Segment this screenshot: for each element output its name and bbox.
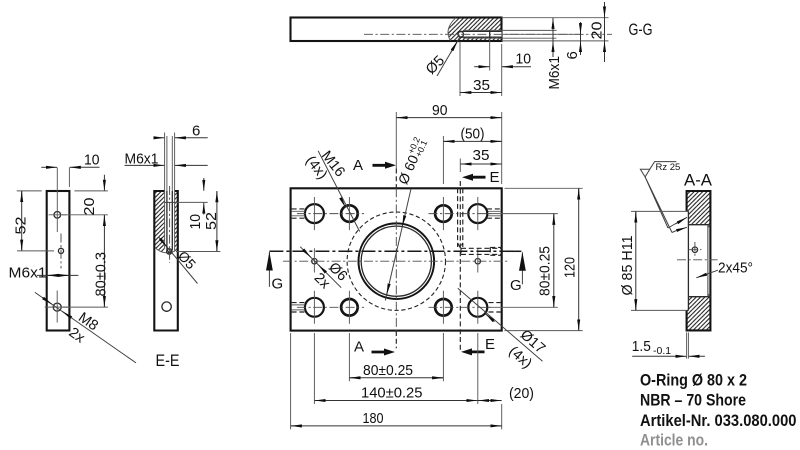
section line G-G	[269, 250, 521, 252]
svg-text:A: A	[354, 339, 364, 356]
vertical ticks Ø6 holes	[314, 248, 477, 272]
section line E-E	[459, 181, 461, 352]
svg-text:E: E	[485, 336, 495, 353]
extension line top face	[502, 17, 609, 19]
hidden drill tip V	[458, 243, 463, 248]
section A-A hatch bottom	[687, 297, 711, 331]
cross hole circle	[692, 247, 697, 252]
center tick hole3	[45, 291, 70, 323]
bore Ø60 outer chamfer circle	[359, 223, 435, 299]
svg-text:35: 35	[473, 147, 490, 164]
svg-text:35: 35	[473, 77, 490, 94]
left side view outline	[47, 191, 70, 331]
svg-text:10: 10	[84, 152, 100, 169]
leader Ø60	[385, 189, 411, 301]
center line hole1 vertical	[56, 168, 58, 233]
hidden recess circle Ø85	[347, 212, 445, 310]
svg-text:1.5: 1.5	[632, 338, 651, 355]
hatch boundary spline	[448, 18, 456, 41]
section G-G bar outline	[291, 18, 502, 42]
leader M8 2x	[35, 292, 136, 363]
svg-text:20: 20	[589, 22, 606, 40]
dimension 120 right	[505, 188, 583, 330]
surface leader lines	[645, 177, 672, 233]
svg-text:52: 52	[13, 217, 30, 235]
tapped hole M16 top-left	[341, 205, 358, 222]
center tick hole1 horizontal	[49, 214, 67, 216]
section A-A hatch top	[687, 191, 711, 225]
svg-text:G-G: G-G	[629, 20, 653, 39]
chamfer lines	[707, 225, 709, 297]
svg-text:Artikel-Nr. 033.080.000: Artikel-Nr. 033.080.000	[640, 411, 797, 430]
extension Ø85	[631, 211, 688, 310]
extension lines thread	[502, 30, 557, 38]
section E-E hatch left block	[154, 191, 164, 252]
hole Ø6 right	[475, 259, 480, 264]
svg-text:A-A: A-A	[684, 171, 713, 190]
tapped hole M16 top-right	[435, 205, 452, 222]
bar outline open at top channel	[154, 191, 178, 331]
section E-E hatch right block	[175, 191, 178, 251]
drill hole outline	[460, 31, 502, 37]
thread crest lines	[165, 191, 175, 251]
hole bottom	[162, 302, 171, 311]
svg-text:20: 20	[81, 198, 98, 216]
thread depth line	[165, 201, 175, 203]
svg-text:120: 120	[562, 257, 579, 278]
label 2x45°	[700, 270, 718, 276]
cross hole center ticks	[694, 242, 696, 258]
hatch broken-out region	[448, 19, 501, 41]
svg-text:90: 90	[432, 102, 448, 119]
center line hole2 vertical	[60, 234, 62, 269]
tapped hole M16 bottom-left	[341, 299, 358, 316]
svg-text:G: G	[510, 277, 522, 294]
extension bar top	[17, 190, 108, 192]
dimension 80±0.25 right	[488, 214, 558, 308]
svg-text:G: G	[272, 276, 284, 293]
dimension 20	[604, 2, 606, 62]
dimension Ø85 H11	[635, 211, 637, 310]
vertical ticks holes	[314, 197, 477, 230]
svg-text:80±0.25: 80±0.25	[536, 246, 553, 296]
corner hole Ø17 top-right	[468, 204, 487, 223]
dimension 52	[216, 191, 218, 252]
svg-text:Rz 25: Rz 25	[656, 162, 681, 173]
surface symbol Rz 25	[640, 162, 676, 177]
hidden side holes row1	[292, 209, 306, 218]
leader Ø5	[437, 37, 460, 76]
hidden side hole row1 right core lines	[488, 211, 501, 216]
extension line hole center	[502, 33, 582, 35]
svg-text:2x45°: 2x45°	[718, 260, 753, 277]
leader Ø17 (4x)	[458, 288, 543, 361]
svg-text:E-E: E-E	[156, 351, 180, 370]
extension line bottom face	[502, 40, 609, 42]
section A-A outline	[687, 191, 711, 330]
corner hole Ø17 bottom-left	[305, 298, 324, 317]
row1 center line	[297, 213, 493, 215]
svg-text:M6x1: M6x1	[546, 56, 563, 90]
front view plate outline	[291, 188, 502, 330]
section arrow G right	[521, 252, 523, 284]
bore edges	[688, 225, 710, 297]
tapped hole M16 bottom-right	[435, 299, 452, 316]
hole bottom M8	[53, 303, 61, 311]
svg-text:M6x1: M6x1	[9, 265, 47, 282]
hidden side hole thread zone	[490, 247, 501, 255]
dimension 10 thread depth	[489, 39, 491, 71]
row2 center line	[297, 306, 493, 308]
svg-text:-0.1: -0.1	[653, 345, 671, 357]
leader Ø5	[159, 237, 198, 284]
svg-text:140±0.25: 140±0.25	[361, 385, 423, 402]
hole middle M6x1	[58, 248, 63, 253]
section line G-G end dash	[506, 250, 521, 252]
hatch boundary arc	[154, 247, 178, 253]
svg-text:80±0.3: 80±0.3	[92, 252, 109, 297]
corner hole Ø17 top-left	[305, 204, 324, 223]
hidden side hole row1 left core lines	[292, 211, 305, 216]
cross hole end circle	[167, 249, 172, 254]
extension 1.5	[687, 333, 689, 359]
svg-text:E: E	[490, 169, 500, 186]
bore Ø60 inner circle	[361, 226, 431, 296]
svg-text:O-Ring Ø 80 x 2: O-Ring Ø 80 x 2	[640, 371, 747, 390]
svg-text:(50): (50)	[461, 126, 485, 143]
drill tip V	[167, 250, 172, 254]
extension 52 right	[176, 251, 220, 253]
dimension 6 top	[155, 137, 164, 139]
extension holes right	[62, 215, 108, 307]
dimension 180	[291, 333, 502, 429]
corner hole Ø17 bottom-right	[468, 298, 487, 317]
thread M6 crest lines	[463, 30, 501, 38]
dimension 10 top	[68, 167, 70, 187]
section arrow G left	[268, 252, 270, 287]
dimension 52 left	[21, 191, 23, 251]
dimension 20 right	[103, 175, 105, 191]
svg-text:10: 10	[516, 50, 532, 67]
svg-text:10: 10	[187, 214, 204, 230]
center line	[677, 259, 718, 261]
dimension (20)	[478, 400, 502, 402]
svg-text:6: 6	[192, 122, 200, 139]
svg-text:80±0.25: 80±0.25	[363, 362, 413, 379]
dimension 80±0.3	[103, 215, 105, 307]
svg-text:Article no.: Article no.	[640, 430, 708, 449]
dimension 80±0.25 bottom	[349, 333, 443, 381]
dimension 10	[203, 178, 205, 191]
dimension 90	[501, 112, 503, 184]
dimension 1.5 -0.1	[632, 355, 705, 357]
center line vertical	[169, 186, 171, 263]
hole Ø6 left	[312, 259, 317, 264]
center line of hole	[364, 33, 612, 35]
hole top (side hole end view)	[54, 212, 61, 219]
extension thread depth right	[175, 201, 208, 203]
svg-text:180: 180	[363, 410, 384, 427]
svg-text:A: A	[353, 157, 363, 174]
recess corners	[687, 211, 689, 310]
hidden top-face hole M6 lines	[458, 188, 463, 247]
dimension 35 top	[459, 159, 461, 173]
main horizontal center line	[283, 260, 509, 262]
drill lines	[167, 191, 172, 250]
svg-text:NBR – 70 Shore: NBR – 70 Shore	[640, 391, 746, 410]
vertical center line / section A-A	[395, 112, 397, 169]
recess face line	[687, 211, 689, 310]
cross-hole end circle	[458, 32, 463, 37]
hidden side hole right at G height	[461, 248, 502, 254]
extension lines up	[165, 133, 175, 192]
drill hole Ø5 body (white)	[460, 31, 502, 37]
dimension 35	[460, 42, 502, 97]
hidden side holes row2 M8	[292, 303, 305, 312]
dimension (50)	[442, 136, 444, 184]
svg-text:Ø 85 H11: Ø 85 H11	[619, 236, 636, 296]
svg-text:(20): (20)	[509, 385, 534, 402]
dimension 140±0.25	[314, 333, 477, 404]
dimension M6x1	[552, 18, 554, 57]
leader Ø6 2x	[300, 247, 341, 288]
svg-text:52: 52	[203, 212, 220, 230]
thread end line	[489, 30, 491, 38]
leader M16 (4x)	[318, 151, 360, 232]
dimension 6	[580, 22, 582, 55]
svg-text:6: 6	[564, 51, 581, 59]
